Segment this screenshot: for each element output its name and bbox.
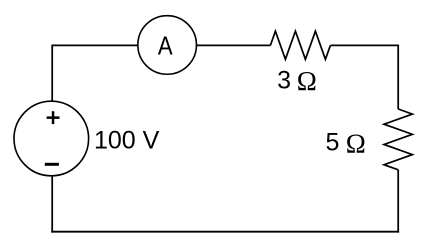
plus sign: [47, 111, 60, 124]
svg-text:100 V: 100 V: [94, 126, 160, 154]
wire left vertical upper: [51, 45, 53, 102]
wire bottom horizontal: [51, 231, 399, 233]
wire ammeter to R1: [196, 44, 270, 46]
svg-text:5: 5: [326, 129, 340, 157]
svg-text:A: A: [158, 30, 173, 60]
voltage source V1: [14, 101, 89, 176]
wire left vertical lower: [51, 176, 53, 233]
wire top-left horizontal: [52, 44, 138, 46]
svg-text:Ω: Ω: [297, 66, 317, 96]
wire R1 to top-right corner: [330, 44, 398, 46]
svg-text:3: 3: [277, 67, 291, 95]
minus sign: [45, 163, 59, 166]
wire right vertical upper: [397, 45, 399, 109]
resistor R2 zigzag: [384, 109, 412, 170]
resistor R1 zigzag: [270, 31, 330, 59]
ammeter A: [138, 16, 197, 75]
wire right vertical lower: [397, 170, 399, 233]
svg-text:Ω: Ω: [346, 128, 366, 158]
